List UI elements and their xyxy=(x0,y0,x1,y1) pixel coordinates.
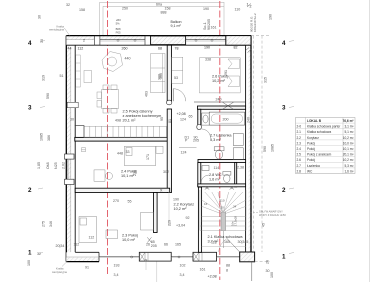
outer wall: right xyxy=(246,36,251,262)
svg-text:2.2: 2.2 xyxy=(297,136,302,140)
room label 2.8 xyxy=(209,173,222,182)
svg-text:66: 66 xyxy=(164,243,168,247)
interior wall V7 stair west xyxy=(198,187,201,252)
svg-text:3: 3 xyxy=(28,104,32,111)
svg-text:10,0 m²: 10,0 m² xyxy=(122,238,136,242)
svg-text:9,1 m²: 9,1 m² xyxy=(171,24,182,28)
svg-text:5%: 5% xyxy=(116,22,121,26)
dimension texts right xyxy=(262,77,275,278)
svg-text:60a: 60a xyxy=(156,3,162,7)
svg-text:5,3 m²: 5,3 m² xyxy=(344,164,353,168)
svg-text:346: 346 xyxy=(49,221,53,227)
svg-text:WODY Z DACHU dn50: WODY Z DACHU dn50 xyxy=(259,213,286,217)
svg-text:53: 53 xyxy=(174,76,178,80)
svg-text:2.2 Korytarz: 2.2 Korytarz xyxy=(174,203,195,207)
svg-text:91: 91 xyxy=(85,266,89,270)
svg-text:24: 24 xyxy=(233,205,237,209)
interior wall V5 wc west xyxy=(198,163,201,187)
svg-text:Korytarz: Korytarz xyxy=(307,136,319,140)
stair landing line xyxy=(202,245,246,247)
window left wall room 2.4 xyxy=(65,154,75,185)
svg-text:2.7 Łazienka: 2.7 Łazienka xyxy=(210,134,232,138)
desk room 2.4 xyxy=(94,170,105,181)
svg-text:+2,08: +2,08 xyxy=(208,275,217,279)
room label 2.5 xyxy=(123,110,162,123)
svg-text:LOKAL B: LOKAL B xyxy=(307,119,322,123)
svg-text:78: 78 xyxy=(175,46,179,50)
room label 2.3 xyxy=(122,234,138,243)
washbasin wc xyxy=(202,166,209,171)
armchair living xyxy=(84,52,123,83)
stair arrow xyxy=(222,231,224,248)
pier box living west wall xyxy=(67,102,78,107)
svg-text:360: 360 xyxy=(159,73,163,79)
room label 2.4 xyxy=(121,170,137,179)
bed room 2.6 xyxy=(199,58,240,93)
kitchen counter xyxy=(151,54,165,93)
svg-text:124: 124 xyxy=(181,151,187,155)
svg-text:3: 3 xyxy=(282,104,286,111)
jamb cap V1 bottom xyxy=(167,100,172,105)
door swing bedroom 2.6 xyxy=(173,89,186,102)
bed room 2.3 xyxy=(79,217,97,243)
svg-text:Pokój: Pokój xyxy=(307,147,315,151)
room label 2.7 xyxy=(210,134,232,143)
shower / washer bathroom xyxy=(233,134,243,146)
dimension texts bottom xyxy=(114,259,231,279)
svg-text:2-0: 2-0 xyxy=(297,125,302,129)
svg-text:26: 26 xyxy=(146,243,150,247)
svg-text:92: 92 xyxy=(186,216,190,220)
window W1 top wall (living) xyxy=(94,36,150,45)
svg-text:100: 100 xyxy=(270,272,274,278)
dim row corridor bottom xyxy=(146,240,181,248)
svg-text:112: 112 xyxy=(74,243,80,247)
gray dashed projection lines right xyxy=(251,36,270,262)
svg-text:102: 102 xyxy=(180,264,186,268)
svg-text:100: 100 xyxy=(27,260,31,266)
bathtub xyxy=(209,112,244,125)
svg-text:158: 158 xyxy=(79,8,85,12)
svg-text:2,38: 2,38 xyxy=(237,166,244,170)
desk room 2.3 xyxy=(106,230,118,239)
svg-text:30: 30 xyxy=(70,118,74,122)
door swing wc xyxy=(201,175,209,183)
svg-text:302: 302 xyxy=(163,170,169,174)
svg-text:Łazienka: Łazienka xyxy=(307,164,320,168)
door X near V4 bottom xyxy=(147,237,151,242)
room label 2.2 xyxy=(174,203,195,212)
svg-text:33: 33 xyxy=(126,150,130,154)
interior wall H5 wc south xyxy=(198,184,246,187)
svg-text:2.5: 2.5 xyxy=(297,153,302,157)
svg-text:2.8: 2.8 xyxy=(297,169,302,173)
svg-text:4: 4 xyxy=(282,40,286,47)
svg-text:448: 448 xyxy=(117,152,123,156)
leader note top-left xyxy=(49,24,70,36)
pier box bottom 1 xyxy=(139,252,171,261)
svg-text:Klatka schodowa parter: Klatka schodowa parter xyxy=(307,125,341,129)
svg-text:2.8 WC: 2.8 WC xyxy=(209,173,222,177)
svg-text:81: 81 xyxy=(168,119,172,123)
svg-text:1085: 1085 xyxy=(271,144,275,152)
svg-text:1: 1 xyxy=(28,250,32,257)
svg-text:3,4: 3,4 xyxy=(114,273,119,277)
svg-text:Pokój z aneksem: Pokój z aneksem xyxy=(307,153,332,157)
svg-text:55: 55 xyxy=(128,200,132,204)
svg-text:2: 2 xyxy=(282,187,286,194)
svg-text:3,4: 3,4 xyxy=(180,273,185,277)
svg-text:28: 28 xyxy=(266,260,270,264)
svg-text:32: 32 xyxy=(66,3,70,7)
svg-text:2.6: 2.6 xyxy=(297,158,302,162)
svg-text:P05: P05 xyxy=(116,30,121,34)
washbasin bathroom xyxy=(202,113,209,125)
svg-text:16: 16 xyxy=(204,202,208,206)
svg-text:51: 51 xyxy=(60,74,64,78)
dining table xyxy=(97,85,119,113)
dimension texts in plan xyxy=(56,26,251,270)
svg-text:190: 190 xyxy=(269,14,273,20)
interior wall H1 bathroom north xyxy=(194,102,246,109)
svg-text:76,6 m²: 76,6 m² xyxy=(343,119,354,123)
line below wall xyxy=(156,262,158,282)
svg-text:498: 498 xyxy=(115,119,121,123)
svg-text:44: 44 xyxy=(68,46,72,50)
svg-text:10,2 m²: 10,2 m² xyxy=(343,136,354,140)
section line xyxy=(251,262,253,281)
interior wall V1 living/bedroom xyxy=(167,45,171,103)
svg-text:1085: 1085 xyxy=(40,133,44,141)
svg-text:1,85: 1,85 xyxy=(37,162,41,169)
svg-text:10,0 m²: 10,0 m² xyxy=(343,141,354,145)
svg-text:240: 240 xyxy=(216,98,222,102)
svg-text:2.1: 2.1 xyxy=(297,130,302,134)
svg-text:386: 386 xyxy=(47,135,51,141)
outer wall: left xyxy=(66,36,75,262)
door leaf bedroom 2.6 xyxy=(172,89,174,102)
svg-text:205: 205 xyxy=(151,244,157,248)
E-box room 2.4 xyxy=(82,148,86,152)
interior wall V6 wc east xyxy=(235,163,237,187)
svg-text:236: 236 xyxy=(133,170,137,176)
interior wall V4 room2.3 east xyxy=(154,193,158,233)
svg-text:3,1 m²: 3,1 m² xyxy=(344,125,353,129)
svg-text:112: 112 xyxy=(211,241,217,245)
svg-text:590: 590 xyxy=(263,146,267,152)
svg-text:190: 190 xyxy=(204,46,210,50)
interior wall V2 bathroom west xyxy=(197,109,202,129)
svg-text:20,1 m²: 20,1 m² xyxy=(343,153,354,157)
stairs xyxy=(200,190,246,230)
svg-text:319: 319 xyxy=(42,75,46,81)
svg-text:165: 165 xyxy=(224,240,230,244)
pier box bottom 2 xyxy=(193,252,217,261)
wardrobe room 2.3 xyxy=(141,213,154,231)
grid ticks left xyxy=(38,41,294,254)
interior wall V3 corridor west xyxy=(167,109,171,193)
svg-text:20,1 m²: 20,1 m² xyxy=(123,119,137,123)
svg-text:10,2 m²: 10,2 m² xyxy=(343,158,354,162)
svg-text:171: 171 xyxy=(146,154,150,160)
break mark right wall xyxy=(245,48,252,53)
svg-text:260: 260 xyxy=(122,46,128,50)
page right border line xyxy=(369,0,371,282)
svg-text:z aneksem kuchennym: z aneksem kuchennym xyxy=(123,114,162,118)
svg-text:68: 68 xyxy=(158,46,162,50)
svg-text:30|345: 30|345 xyxy=(238,240,249,244)
entrance door leaf xyxy=(219,239,240,253)
svg-text:275: 275 xyxy=(42,221,46,227)
balcony slab outline xyxy=(100,2,224,35)
svg-text:17,5x28: 17,5x28 xyxy=(234,216,238,226)
dimension texts top xyxy=(38,3,252,44)
balcony door window top xyxy=(186,39,226,41)
svg-text:2: 2 xyxy=(83,39,85,43)
svg-text:+2,08: +2,08 xyxy=(177,112,186,116)
svg-text:N25: N25 xyxy=(54,162,58,169)
svg-text:270: 270 xyxy=(113,199,119,203)
svg-text:Pokój: Pokój xyxy=(307,141,315,145)
svg-text:112: 112 xyxy=(78,46,84,50)
svg-text:190: 190 xyxy=(203,7,209,11)
svg-text:2,02: 2,02 xyxy=(62,162,66,169)
red modular axis line B xyxy=(219,1,221,280)
window bottom wall room 2.3 (glazing) xyxy=(99,256,139,258)
step wall left of wardrobe xyxy=(75,126,84,138)
svg-text:Klatka schodowa: Klatka schodowa xyxy=(307,130,331,134)
svg-text:2.3: 2.3 xyxy=(297,141,302,145)
svg-text:20: 20 xyxy=(221,206,225,210)
svg-text:112: 112 xyxy=(89,236,95,240)
svg-text:338: 338 xyxy=(205,58,211,62)
svg-text:315: 315 xyxy=(264,77,268,83)
svg-text:wentylacyjna: wentylacyjna xyxy=(49,27,64,31)
red modular axis line A xyxy=(107,1,109,276)
svg-text:193: 193 xyxy=(114,264,120,268)
legend table xyxy=(296,118,356,174)
svg-text:+3,04: +3,04 xyxy=(176,224,185,228)
svg-text:5,3 m²: 5,3 m² xyxy=(210,138,221,142)
svg-text:190: 190 xyxy=(173,198,179,202)
outer wall: top xyxy=(66,36,251,46)
toilet wc xyxy=(223,172,231,183)
door swing bathroom xyxy=(202,129,211,138)
wall pier top (hatched) xyxy=(151,36,186,45)
leader note bottom-left xyxy=(52,261,68,274)
outer wall: bottom left solid part xyxy=(66,252,99,261)
dimension texts left xyxy=(27,74,66,266)
floor edge line corridor xyxy=(168,190,170,226)
svg-text:10,1 m²: 10,1 m² xyxy=(343,147,354,151)
svg-text:161: 161 xyxy=(200,268,206,272)
interior wall H2 living south xyxy=(75,137,171,141)
svg-text:250: 250 xyxy=(122,7,128,11)
svg-text:440: 440 xyxy=(125,57,131,61)
svg-text:161: 161 xyxy=(211,26,217,30)
svg-text:4: 4 xyxy=(28,40,32,47)
svg-text:2: 2 xyxy=(28,187,32,194)
rotated window codes top xyxy=(203,13,273,32)
svg-text:30: 30 xyxy=(266,269,270,273)
svg-text:200: 200 xyxy=(223,118,229,122)
svg-text:114: 114 xyxy=(214,166,220,170)
wall pier top-right corner xyxy=(226,36,251,46)
svg-text:590: 590 xyxy=(46,93,50,99)
window bottom glazing 2 xyxy=(171,256,193,258)
svg-text:65: 65 xyxy=(189,115,193,119)
bed room 2.4 xyxy=(125,146,164,166)
stair center wall (gray fill) xyxy=(221,212,226,231)
wardrobe strip living south xyxy=(84,126,166,137)
svg-text:82: 82 xyxy=(234,46,238,50)
svg-text:10,2 m²: 10,2 m² xyxy=(174,207,188,211)
toilet bathroom xyxy=(214,147,224,159)
svg-text:110: 110 xyxy=(235,8,241,12)
svg-text:10,2 m²: 10,2 m² xyxy=(212,79,226,83)
entrance opening bottom right (glazed) xyxy=(217,256,240,257)
svg-text:100x230 So-2: 100x230 So-2 xyxy=(253,13,257,32)
svg-text:229: 229 xyxy=(168,220,172,226)
room label balkon xyxy=(171,20,182,28)
svg-text:Pokój: Pokój xyxy=(307,158,315,162)
svg-text:2.5 Pokój dzienny: 2.5 Pokój dzienny xyxy=(123,110,153,114)
interior wall H4 bathroom south xyxy=(198,160,246,163)
room label 2.1 xyxy=(208,235,244,244)
svg-text:165: 165 xyxy=(175,243,181,247)
svg-text:32: 32 xyxy=(37,252,41,256)
svg-text:wentylacyjna: wentylacyjna xyxy=(52,270,67,274)
svg-text:2: 2 xyxy=(250,5,252,9)
svg-text:95: 95 xyxy=(160,117,164,121)
svg-text:463: 463 xyxy=(145,91,149,97)
room label 2.6 xyxy=(212,75,228,84)
svg-text:1,6 m²: 1,6 m² xyxy=(344,169,353,173)
corner pillar bottom right xyxy=(240,252,255,262)
svg-text:2.3 Pokój: 2.3 Pokój xyxy=(122,234,138,238)
svg-text:124: 124 xyxy=(180,118,186,122)
svg-text:210: 210 xyxy=(220,199,225,203)
svg-text:20|34: 20|34 xyxy=(56,244,65,248)
radiator strip living west wall xyxy=(76,55,81,87)
corridor niche line xyxy=(179,147,197,149)
svg-text:30: 30 xyxy=(38,15,42,19)
svg-text:5,1 m²: 5,1 m² xyxy=(344,130,353,134)
svg-text:88: 88 xyxy=(226,264,230,268)
svg-text:2.6 Pokój: 2.6 Pokój xyxy=(212,75,228,79)
interior wall H3 room2.4 south xyxy=(75,188,170,192)
svg-text:1: 1 xyxy=(282,254,286,261)
leader note right (spływ) xyxy=(250,210,286,217)
door X marks on H5 xyxy=(205,187,234,190)
wardrobe room 2.6 xyxy=(172,57,183,83)
svg-text:8: 8 xyxy=(226,269,228,273)
svg-text:205: 205 xyxy=(193,139,199,143)
svg-text:Oś8: Oś8 xyxy=(46,162,50,169)
svg-text:888: 888 xyxy=(161,11,167,15)
svg-text:2.4: 2.4 xyxy=(297,147,302,151)
svg-text:2.7: 2.7 xyxy=(297,164,302,168)
svg-text:WC: WC xyxy=(307,169,313,173)
svg-text:2.1 Klatka schodowa: 2.1 Klatka schodowa xyxy=(208,235,244,239)
svg-text:45: 45 xyxy=(262,223,266,227)
svg-text:1,6 m²: 1,6 m² xyxy=(209,178,220,182)
svg-text:240: 240 xyxy=(246,117,250,123)
